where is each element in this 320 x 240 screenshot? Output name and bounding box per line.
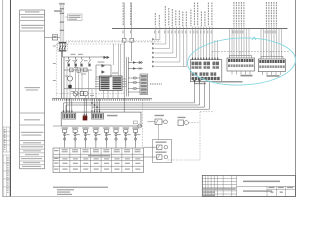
- power supply red block: [83, 116, 88, 121]
- diode D2: [102, 70, 105, 73]
- K1 wires: [148, 121, 156, 123]
- relay group K2 lower: [144, 140, 172, 163]
- table header text blobs: [54, 149, 141, 170]
- doc title text: [243, 181, 280, 183]
- top wire labels group right B: [266, 2, 276, 26]
- vertical wire x132 lower: [131, 42, 133, 61]
- cascade horizontals to right: [64, 103, 210, 109]
- wires into U1 top: [114, 44, 121, 76]
- contact rows above XT5: [128, 63, 143, 69]
- wire y88.8: [64, 88, 100, 90]
- frame inner left line: [9, 0, 11, 197]
- K1 label: [155, 115, 165, 116]
- U1 right pin cells: [113, 77, 122, 89]
- cabinet wire terminal marks: [63, 110, 100, 115]
- meter box mark: [53, 36, 56, 37]
- leader from label box: [65, 16, 68, 18]
- wire drops in panel: [67, 66, 118, 98]
- K1 box marks: [156, 120, 158, 124]
- frame bottom line: [3, 196, 296, 198]
- feeder unit labels row: [62, 127, 139, 128]
- wire bracket above A4: [261, 56, 283, 59]
- revision cloud ellipse: [187, 36, 297, 87]
- wires into A2: [193, 27, 218, 60]
- main breaker QF1: [58, 42, 67, 51]
- circle symbol right: [138, 124, 142, 128]
- cable tiny label left: [54, 10, 62, 12]
- junction dots: [91, 102, 98, 108]
- block B pins: [91, 113, 103, 119]
- controller U1 box: [100, 76, 123, 90]
- wires into A4: [261, 27, 282, 59]
- relay coil dark: [68, 85, 71, 88]
- left table rule r3: [20, 30, 45, 32]
- vertical wire x124 lower: [123, 42, 125, 112]
- dashed panel enclosure: [56, 44, 124, 98]
- label under A4: [267, 75, 280, 77]
- feeder drops to lower blocks: [64, 98, 100, 115]
- small component c: [84, 68, 88, 72]
- terminal strip y98.4: [52, 97, 152, 99]
- revision header text: [203, 188, 236, 196]
- A2 wire terminal marks: [192, 58, 218, 60]
- wire K1 to K2: [158, 125, 160, 140]
- distribution cabinet outline: [61, 112, 141, 126]
- U1 left wires: [95, 79, 100, 87]
- K2 coil a: [157, 145, 163, 150]
- wire drop pair x124: [124, 3, 132, 39]
- pump motor M1: [68, 76, 73, 81]
- left table rule r4: [20, 112, 45, 114]
- middle connector block A3: [227, 58, 255, 71]
- K2 contact a: [164, 145, 168, 149]
- short dashed bus y84: [150, 83, 162, 85]
- K2 coil a mark: [157, 146, 159, 149]
- lit/list cells: [267, 186, 295, 196]
- tiny marks above dashed line: [66, 40, 160, 42]
- cloud pointer tail: [252, 37, 256, 40]
- K1 box: [155, 119, 162, 125]
- K2 enclosure: [153, 140, 172, 163]
- arrows K: [104, 56, 110, 59]
- vertical feeders near XT5: [127, 57, 129, 97]
- wires into XT5: [128, 78, 140, 92]
- notes text block: [53, 187, 108, 195]
- cascade right verticals: [195, 82, 210, 110]
- contact ovals: [133, 77, 137, 90]
- left specification table outline: [20, 10, 45, 169]
- wires into A3: [230, 27, 250, 58]
- meter box: [52, 35, 57, 40]
- loop rect with diodes: [96, 65, 111, 77]
- left table rule r6: [20, 140, 45, 142]
- fused switch F2: [74, 57, 77, 66]
- left margin stamp upper: [3, 127, 10, 152]
- label under dashed link: [217, 81, 243, 83]
- contact row arrows: [133, 61, 142, 70]
- label box text: [69, 15, 81, 20]
- motor M2: [73, 91, 78, 96]
- revision grid rows: [202, 179, 236, 195]
- A2 row1 cells: [192, 62, 220, 66]
- fused switch F1: [67, 57, 70, 66]
- K1 contact circle: [164, 120, 168, 124]
- label under XT1: [194, 83, 206, 84]
- A2 row3 cells: [192, 72, 217, 75]
- cable top marks: [59, 3, 65, 4]
- wire bracket above A3: [230, 55, 252, 58]
- connector symbols on pair: [122, 38, 126, 42]
- sheet outer edge left: [2, 0, 4, 197]
- connector XT5 vertical: [140, 74, 148, 95]
- small component a: [70, 68, 74, 72]
- cascade level wires: [155, 40, 187, 67]
- title block outline: [202, 175, 295, 196]
- dashed signal wires: [168, 112, 215, 160]
- table data blobs: [63, 158, 141, 169]
- left margin stamp vertical text: [5, 129, 8, 193]
- cabinet bottom line extension: [53, 125, 61, 127]
- A2 row4 cells: [192, 77, 220, 80]
- table merged rule: [53, 156, 144, 158]
- motor M3 with box: [80, 91, 88, 96]
- revision grid columns: [205, 175, 236, 196]
- diode D1: [102, 64, 105, 67]
- terminal strip ticks: [53, 99, 152, 101]
- branch wire to meter box: [45, 37, 60, 39]
- left table dense rules: [20, 145, 45, 165]
- wires from feeders into table: [65, 147, 136, 148]
- K2 contact b: [164, 155, 168, 159]
- stubs below A4: [263, 72, 281, 75]
- row wire y70: [64, 69, 92, 71]
- panel value labels: [53, 46, 118, 97]
- top horizontal bus: [112, 27, 288, 29]
- stubs below A3: [232, 71, 250, 75]
- load summary table: [53, 148, 144, 172]
- K2 coil b mark: [157, 155, 159, 158]
- U1 left pin cells: [101, 77, 110, 89]
- table rule 3: [53, 159, 144, 161]
- extra coil S4: [88, 64, 90, 67]
- top wire labels group right A: [234, 2, 244, 26]
- extra coil S3: [80, 64, 82, 67]
- K2 label b: [156, 152, 167, 153]
- K2 coil b: [157, 155, 163, 160]
- block A pins: [63, 113, 76, 119]
- title block: [202, 175, 295, 196]
- cable joint marks: [60, 8, 64, 31]
- dashed vertical right of cabinet: [141, 100, 143, 148]
- left table header rule: [20, 14, 45, 16]
- extra switch contact S3: [80, 57, 83, 63]
- sensor B1: [178, 117, 189, 126]
- label under A3: [241, 75, 253, 77]
- wire from breaker down: [62, 51, 105, 98]
- K2 label a: [156, 142, 167, 143]
- left margin stamp lower: [3, 155, 10, 197]
- X marks on contact rows: [139, 61, 142, 70]
- left table rule r5: [20, 124, 45, 126]
- table header rule: [53, 153, 144, 155]
- relay group K1 upper: [148, 115, 168, 125]
- tick labels under bus: [122, 31, 275, 34]
- table column lines: [60, 148, 133, 172]
- lit cells text: [269, 187, 294, 193]
- table rule 4: [53, 165, 144, 167]
- feeder breaker units: [63, 130, 138, 147]
- arrow marks on verticals: [193, 80, 201, 83]
- small mark above circle: [133, 121, 137, 124]
- cable label box: [68, 14, 83, 20]
- frame right line: [294, 0, 296, 197]
- incoming cable at top left: [60, 3, 64, 44]
- A2 row2 cells: [192, 66, 220, 69]
- left table rule r2: [20, 20, 45, 22]
- dashed link over connectors: [212, 51, 289, 57]
- feeder unit side labels: [66, 134, 140, 135]
- XT5 cells: [141, 75, 147, 94]
- long dashed terminal line y42: [58, 41, 161, 43]
- power device A2 block: [190, 60, 222, 82]
- left table text blobs: [21, 11, 44, 167]
- cabinet label: [107, 115, 118, 117]
- doc subtitle text: [243, 190, 272, 191]
- right connector block A4: [258, 59, 285, 72]
- wire cluster drops middle: [156, 27, 187, 67]
- K2 wires: [144, 146, 157, 148]
- red block highlight: [83, 116, 85, 117]
- top wire labels (rotated text streaks): [123, 3, 212, 27]
- U1 right wires: [122, 79, 127, 87]
- cascade arrow contacts: [152, 38, 155, 68]
- small component b: [77, 68, 81, 72]
- extra switch contact S4: [88, 57, 91, 63]
- doc number cell rule: [237, 185, 296, 187]
